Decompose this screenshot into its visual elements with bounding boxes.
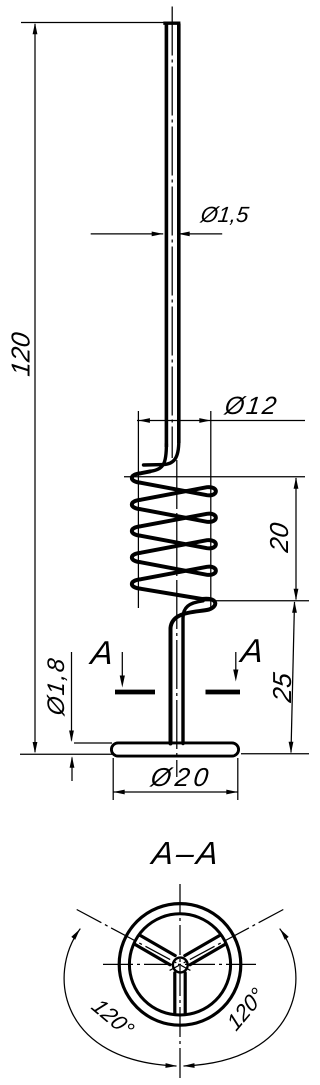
centerline lower rod (dash-dot) [176, 460, 178, 777]
svg-text:A: A [237, 633, 266, 670]
arrowhead dim 120 top [33, 23, 38, 35]
section arrowhead left [120, 676, 125, 688]
extension line base right (dim 20) [237, 758, 239, 800]
angle arc left 120deg [64, 929, 176, 1066]
extension line bottom-left (base bottom, for dim 120) [20, 753, 112, 755]
section horizontal centerline [103, 963, 257, 965]
section spoke upper-right (double line) [185, 935, 226, 965]
dimension line 20 [295, 478, 297, 600]
extension line coil bottom (dims 20/25) [204, 600, 309, 602]
svg-text:Ø12: Ø12 [222, 392, 280, 420]
arrowhead base dim left [113, 790, 125, 795]
dimension line 1,8 lower [71, 758, 73, 782]
arrowhead dim 25 bottom [289, 742, 294, 754]
arrowhead dim 20 top [294, 477, 299, 489]
extension line coil right (dim 12) [210, 411, 212, 608]
section arrow stem left [121, 652, 123, 678]
svg-text:A – A: A – A [148, 835, 220, 871]
svg-text:Ø1,8: Ø1,8 [43, 655, 70, 717]
svg-text:Ø1,5: Ø1,5 [198, 202, 250, 227]
arrowhead dim 1,8 up [70, 756, 75, 768]
section diagonal centerline upper-right [170, 910, 284, 971]
svg-text:120°: 120° [222, 982, 268, 1035]
arrowhead base dim right [226, 790, 238, 795]
dimension line base 20 [113, 791, 238, 793]
rod upper right edge [177, 24, 181, 444]
arrowhead arc right top [280, 929, 289, 940]
base disc (side view) [111, 743, 238, 756]
rod top end cap [163, 22, 180, 25]
leader line right of dim 1,5 [178, 233, 222, 235]
section vertical centerline [179, 884, 181, 1082]
extension line base left (dim 20) [112, 758, 114, 800]
extension line base bottom right (dim 25) [241, 753, 309, 755]
svg-text:Ø20: Ø20 [148, 762, 214, 792]
section arrow stem right [235, 652, 237, 672]
svg-text:120: 120 [6, 330, 36, 378]
centerline upper rod (dash-dot) [171, 7, 173, 459]
arrowhead dim 1,8 down [69, 731, 74, 743]
coil exit bend inner edge / rod lower right edge [183, 601, 203, 744]
arrowhead at rod left edge [152, 232, 164, 237]
arrowhead at rod right edge [178, 232, 190, 237]
dimension line 1,8 upper [71, 652, 73, 741]
extension line coil left (dim 12) [137, 411, 139, 608]
arrowhead arc left bottom [165, 1063, 177, 1068]
section plane thick bar right [206, 690, 241, 695]
svg-text:20: 20 [264, 521, 294, 555]
arrowhead dim 25 top [292, 601, 297, 613]
extension line coil top (dim 20) [124, 476, 305, 478]
coil entry bend inner edge [150, 444, 166, 471]
arrowhead dim 120 bottom [33, 742, 38, 754]
dimension line 12 [137, 420, 305, 422]
arrowhead dim 12 right [199, 418, 211, 423]
section diagonal centerline upper-left [77, 910, 191, 971]
svg-text:25: 25 [267, 671, 297, 705]
arrowhead dim 20 bottom [294, 589, 299, 601]
section plane thick bar left [115, 690, 155, 695]
arrowhead dim 12 left [138, 418, 150, 423]
extension line top (rod top, for dim 120) [21, 22, 164, 24]
leader line left of dim 1,5 [91, 233, 164, 235]
section outer circle (base ring OD) [119, 904, 241, 1026]
arrowhead arc left top [71, 929, 80, 940]
dimension line 120 [34, 24, 36, 752]
section center hub [173, 958, 188, 973]
dimension line 25 [291, 602, 295, 753]
arrowhead arc right bottom [183, 1063, 195, 1068]
svg-text:A: A [87, 635, 116, 672]
angle arc right 120deg [184, 929, 296, 1066]
coil wire (5 turns with crossed loops) [132, 471, 216, 743]
section inner circle (base ring ID) [129, 914, 230, 1015]
section spoke down (double line) [175, 973, 185, 1015]
coil entry bend outer edge [144, 441, 179, 465]
section arrowhead right [233, 670, 238, 682]
extension line base top left [74, 742, 112, 744]
rod upper left edge [165, 24, 169, 448]
section spoke upper-left (double line) [134, 935, 175, 965]
